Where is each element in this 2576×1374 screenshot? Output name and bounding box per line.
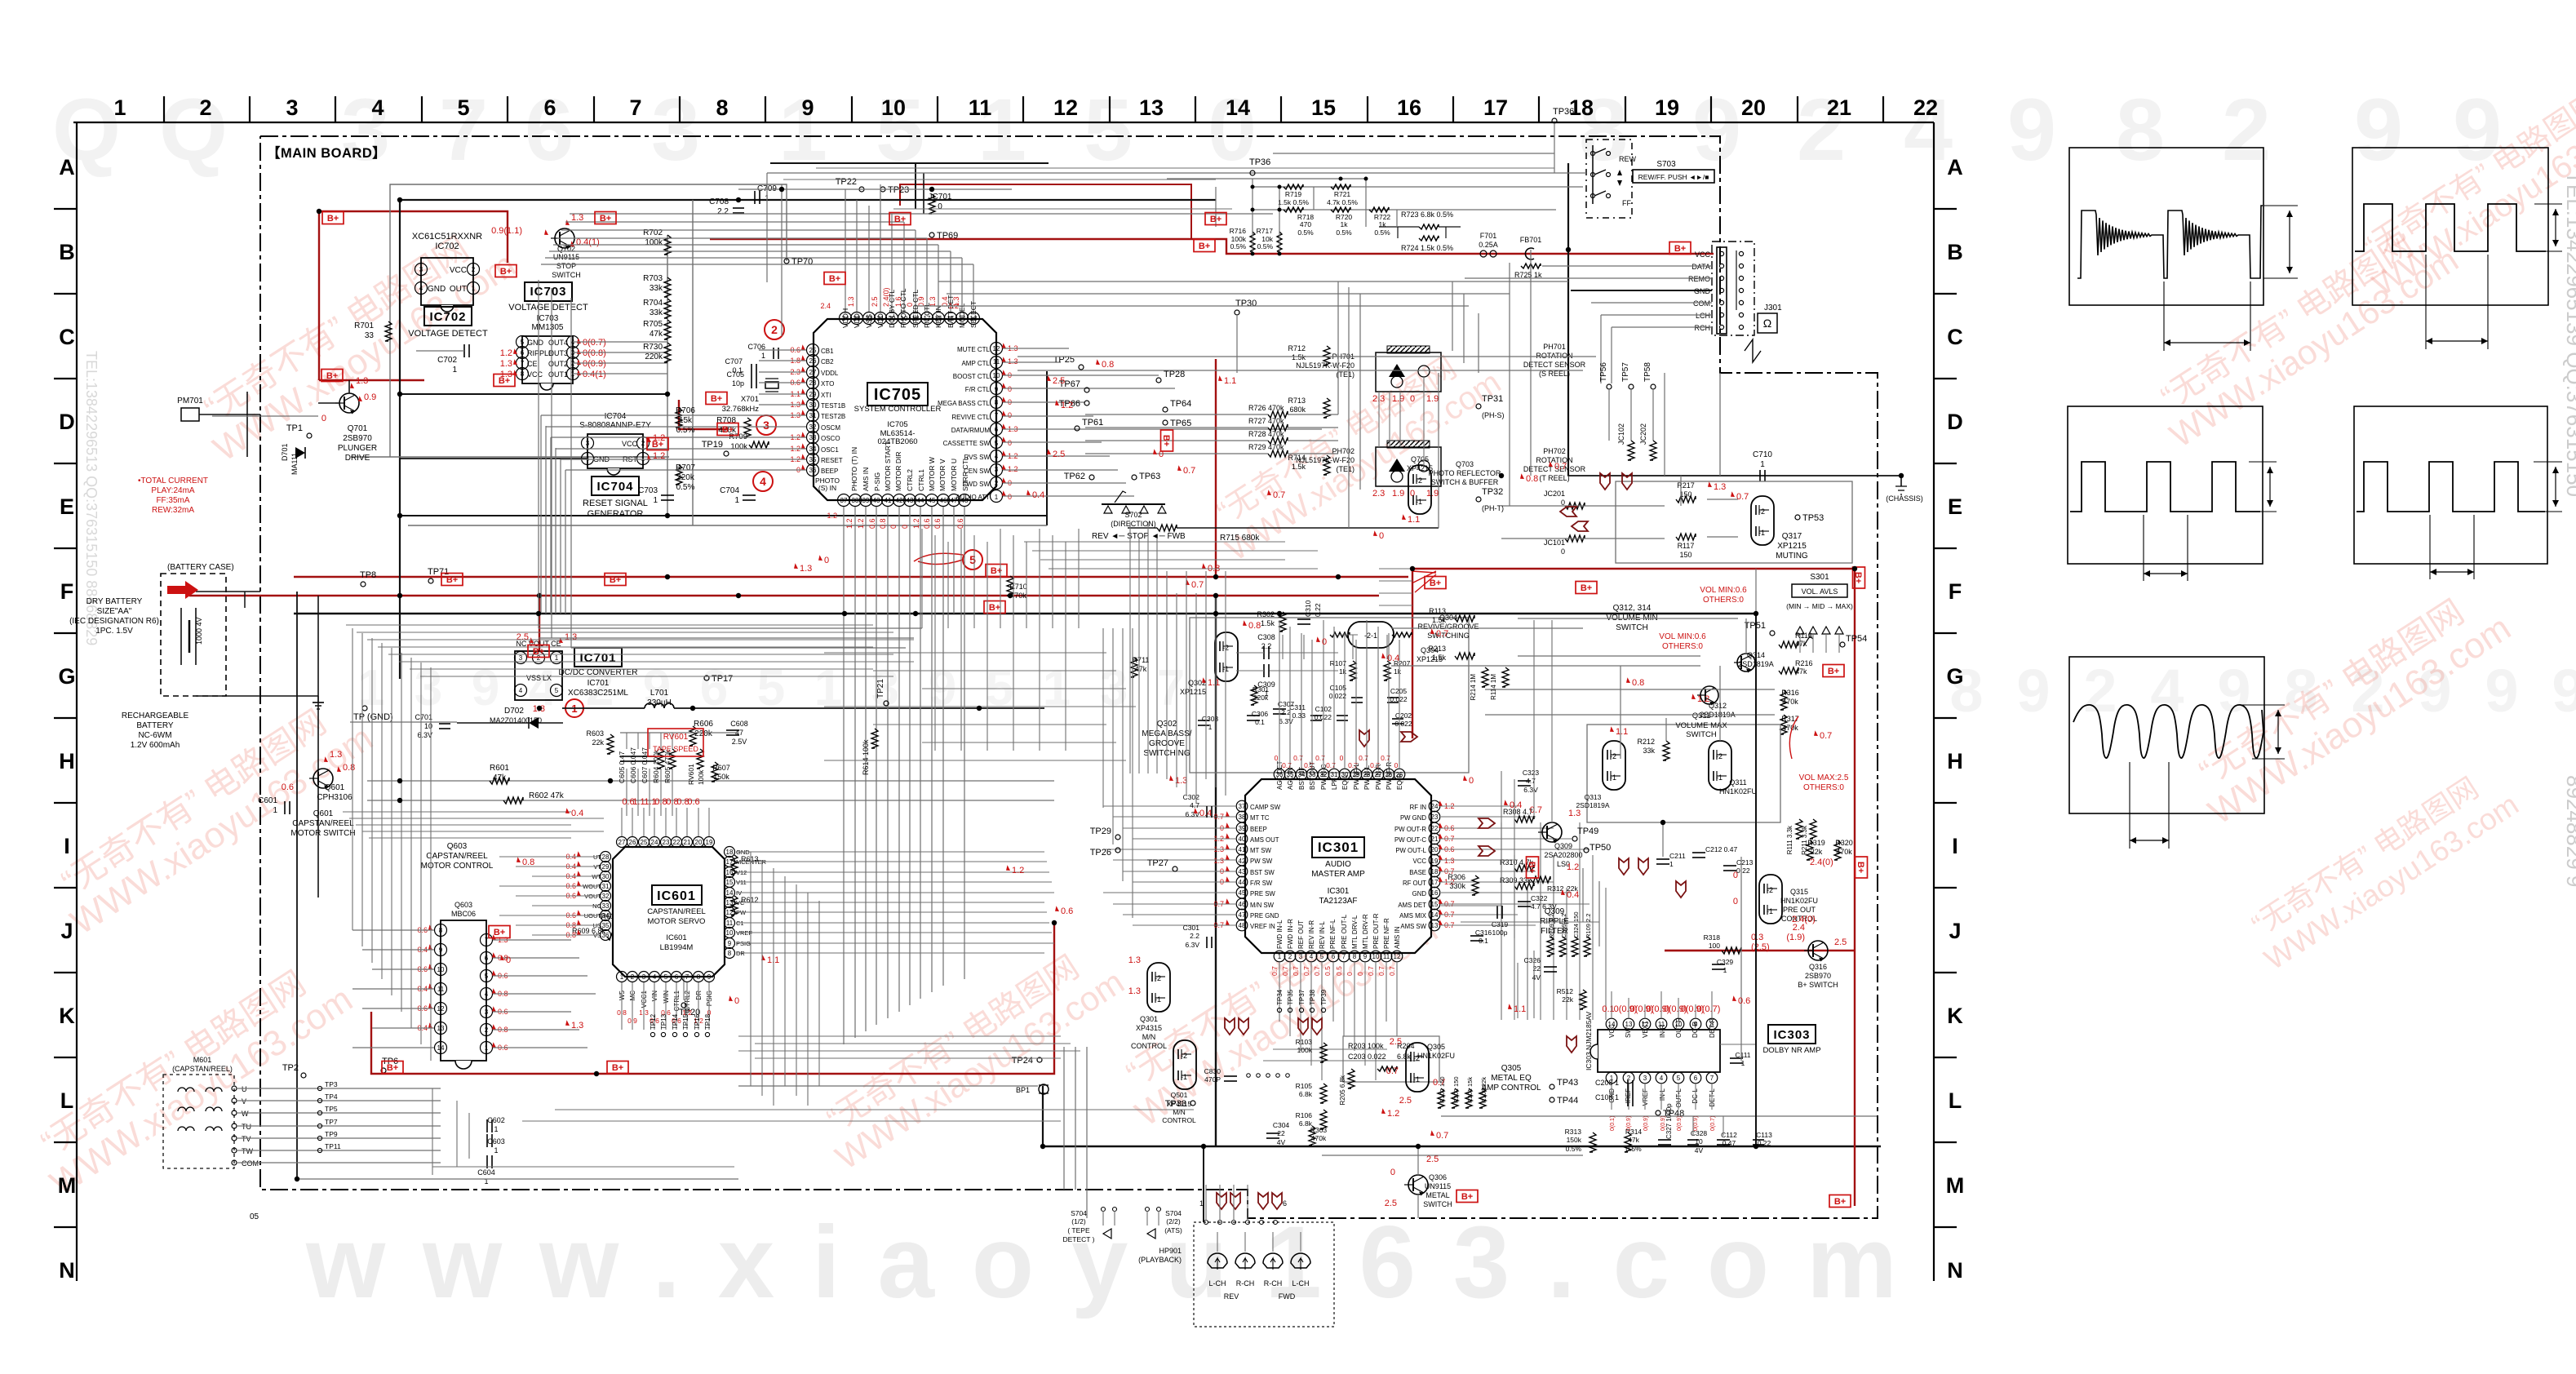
svg-text:KEY IN: KEY IN	[934, 305, 942, 328]
svg-text:C310: C310	[1304, 600, 1312, 617]
svg-text:12: 12	[1394, 953, 1401, 960]
svg-text:0.8: 0.8	[879, 518, 887, 529]
svg-text:1: 1	[485, 1044, 489, 1052]
IC701 pin 1	[551, 652, 563, 664]
wire IC705 bottom bundle	[843, 507, 845, 1044]
IC705 pin 38	[849, 494, 862, 507]
svg-text:VOL MIN:0.6: VOL MIN:0.6	[1700, 586, 1747, 595]
svg-text:I: I	[64, 834, 70, 858]
wire IC705 left bundle verticals	[540, 415, 542, 614]
svg-text:TEST1B: TEST1B	[821, 402, 845, 410]
svg-text:9: 9	[995, 386, 999, 393]
svg-text:48: 48	[1239, 922, 1246, 929]
svg-text:0.5%: 0.5%	[1257, 242, 1274, 250]
TP24 test point	[1037, 1057, 1042, 1062]
svg-text:Q601: Q601	[325, 783, 345, 792]
wire mesh right risers above IC301	[1166, 571, 1168, 779]
svg-text:150k: 150k	[1567, 1136, 1582, 1144]
svg-text:EQ-R: EQ-R	[1396, 773, 1403, 790]
svg-text:A: A	[1947, 155, 1963, 180]
svg-text:C602: C602	[487, 1116, 505, 1124]
svg-text:47k: 47k	[493, 773, 507, 782]
Q603 pin 9	[435, 944, 447, 956]
svg-text:4: 4	[2150, 657, 2184, 725]
svg-text:R216: R216	[1795, 659, 1813, 667]
R310 resistor	[1514, 865, 1534, 871]
svg-text:B+: B+	[1828, 667, 1839, 676]
svg-text:R212: R212	[1637, 738, 1655, 746]
C112 C113 capacitors	[1717, 1139, 1730, 1141]
wire IC301 left fanout	[1103, 805, 1236, 807]
C705 capacitor	[751, 377, 752, 388]
svg-text:IC705: IC705	[874, 386, 921, 404]
svg-text:12: 12	[1053, 95, 1078, 120]
IC303 pin 9	[1690, 1018, 1701, 1030]
svg-text:0.7: 0.7	[1820, 731, 1832, 741]
svg-text:9: 9	[801, 95, 814, 120]
IC301 pin 12	[1391, 951, 1403, 962]
svg-text:-1: -1	[1416, 498, 1422, 506]
svg-text:2: 2	[631, 973, 635, 981]
svg-text:B+: B+	[1430, 578, 1441, 588]
IC301 chip body	[1245, 779, 1431, 953]
svg-text:150: 150	[1679, 490, 1691, 499]
svg-text:C329: C329	[1717, 958, 1734, 966]
svg-text:R109 2.2: R109 2.2	[1585, 914, 1592, 938]
svg-text:K: K	[59, 1004, 75, 1028]
C710 capacitor	[1759, 470, 1761, 481]
IC705 chip body	[814, 319, 996, 500]
svg-text:1: 1	[273, 806, 277, 815]
svg-text:XC6383C251ML: XC6383C251ML	[568, 689, 628, 698]
svg-text:TEST2B: TEST2B	[821, 413, 845, 420]
svg-text:B: B	[1947, 240, 1963, 264]
svg-text:15: 15	[726, 879, 734, 886]
resistor R605	[669, 749, 676, 769]
svg-text:TP13: TP13	[660, 1013, 667, 1030]
IC705 pin 30	[807, 399, 819, 411]
svg-text:Q312: Q312	[1709, 702, 1727, 710]
svg-text:TP37: TP37	[1298, 989, 1306, 1005]
svg-text:B+: B+	[829, 274, 840, 284]
svg-text:0(0.9): 0(0.9)	[1643, 1116, 1649, 1131]
JC701 resistor	[929, 194, 935, 214]
IC601 pin 27	[617, 837, 627, 848]
svg-text:R715 680k: R715 680k	[1220, 534, 1260, 543]
R117 resistor	[1676, 534, 1696, 540]
svg-text:Q311: Q311	[1692, 711, 1711, 720]
svg-text:C302: C302	[1183, 793, 1200, 801]
R113 resistor	[1455, 615, 1474, 622]
svg-text:12: 12	[993, 345, 1000, 352]
svg-text:470P: 470P	[1204, 1075, 1221, 1084]
svg-text:1.1: 1.1	[632, 797, 645, 807]
svg-text:8: 8	[2116, 80, 2165, 179]
svg-text:1.9: 1.9	[1426, 394, 1439, 404]
svg-text:DC-R: DC-R	[1691, 1022, 1699, 1038]
J301 pin LCH	[1719, 312, 1723, 317]
IC705 pin 36	[807, 464, 819, 476]
svg-text:9: 9	[2016, 657, 2050, 725]
wire black bus row F	[294, 613, 1756, 615]
svg-text:35: 35	[602, 922, 610, 929]
svg-text:22: 22	[673, 839, 681, 846]
R716 resistor	[1250, 232, 1255, 251]
wire top horizontal gray 232	[738, 188, 1012, 190]
svg-text:HN1K02FU: HN1K02FU	[1780, 897, 1818, 905]
svg-text:PRE OUT: PRE OUT	[1783, 906, 1816, 914]
svg-text:0.7: 0.7	[1313, 966, 1321, 976]
IC705 pin 27	[807, 366, 819, 379]
svg-text:C605 0.47: C605 0.47	[618, 751, 626, 783]
svg-text:R701: R701	[354, 321, 374, 330]
svg-text:R117: R117	[1678, 542, 1695, 550]
R718 resistor	[1284, 207, 1303, 212]
chevron IC303 left	[1567, 1036, 1576, 1053]
svg-text:-1: -1	[1155, 995, 1161, 1004]
svg-text:27: 27	[809, 369, 817, 376]
svg-text:PW SW: PW SW	[1250, 858, 1273, 865]
svg-text:2.5V: 2.5V	[732, 738, 747, 746]
wire black right riser 1283	[1046, 371, 1048, 525]
svg-text:2: 2	[1288, 953, 1292, 960]
svg-text:0(0.7): 0(0.7)	[583, 338, 606, 348]
IC705 pin 19	[898, 312, 911, 325]
svg-text:41: 41	[885, 497, 892, 504]
wire HP901 feeds	[1217, 1232, 1218, 1252]
svg-text:1: 1	[761, 352, 765, 360]
M601 coils	[178, 1088, 194, 1092]
wire riser 849	[692, 200, 694, 525]
svg-text:1.3: 1.3	[571, 213, 583, 223]
svg-text:PW OUT-L: PW OUT-L	[1395, 847, 1426, 854]
wire left vertical 364	[296, 592, 298, 1179]
IC705 pin 24	[840, 312, 852, 325]
TP54 test point	[1840, 642, 1845, 647]
IC601 pin 10	[725, 928, 735, 938]
svg-text:11: 11	[1383, 953, 1390, 960]
B+ label	[321, 370, 343, 382]
svg-text:TP18: TP18	[704, 1013, 712, 1030]
C702 capacitor	[463, 344, 465, 357]
IC301 pin 20	[1429, 844, 1440, 855]
svg-text:RECHARGEABLE: RECHARGEABLE	[122, 711, 189, 720]
R712 resistor	[1323, 346, 1330, 366]
svg-text:0.7: 0.7	[1281, 966, 1289, 976]
R601 resistor	[490, 778, 509, 784]
IC601 chip body	[613, 847, 725, 977]
PH702 sensor block	[1376, 447, 1441, 486]
svg-text:1: 1	[113, 95, 126, 120]
svg-text:05: 05	[250, 1212, 259, 1221]
svg-text:TP17: TP17	[712, 674, 733, 684]
C301 capacitor	[1206, 937, 1208, 948]
svg-text:5: 5	[485, 973, 489, 980]
wire IC301 bottom stubs	[1279, 962, 1280, 1022]
C327 capacitor	[1658, 1139, 1671, 1141]
wire mesh bottom long rows	[555, 1109, 1194, 1110]
svg-text:TP27: TP27	[1147, 858, 1168, 868]
svg-text:36: 36	[602, 932, 610, 939]
wire IC704 rst	[400, 458, 587, 459]
svg-text:43: 43	[907, 497, 914, 504]
svg-text:AMS IN: AMS IN	[862, 468, 870, 491]
svg-text:39: 39	[862, 497, 870, 504]
svg-text:4: 4	[760, 475, 766, 488]
svg-text:40: 40	[1239, 835, 1246, 843]
svg-text:Q316: Q316	[1809, 963, 1827, 971]
svg-text:0.7: 0.7	[1386, 1066, 1399, 1076]
svg-text:R301: R301	[1253, 685, 1270, 694]
wire IC705 right fanout	[1003, 348, 1069, 349]
mega bass block outline	[1190, 618, 1469, 773]
svg-text:BP1: BP1	[1016, 1086, 1030, 1094]
svg-text:1.2: 1.2	[500, 348, 512, 358]
C202 capacitor	[1392, 718, 1403, 720]
svg-text:TP36: TP36	[1553, 107, 1574, 117]
svg-text:6: 6	[521, 349, 525, 357]
IC601 pin 6	[672, 972, 682, 982]
IC705 pin 15	[945, 312, 957, 325]
svg-text:2.4: 2.4	[1793, 923, 1805, 933]
C326 capacitor	[1544, 966, 1557, 968]
svg-text:TA2123AF: TA2123AF	[1319, 897, 1357, 906]
wire trunk from border corner	[1719, 373, 1721, 476]
svg-text:SURR CTL: SURR CTL	[961, 456, 969, 491]
IC301 pin 2	[1284, 951, 1296, 962]
waveform 4 level dimension arrow	[2534, 461, 2562, 463]
svg-text:680k: 680k	[1289, 406, 1306, 414]
B+ label	[1194, 240, 1215, 252]
svg-text:MOTOR CONTROL: MOTOR CONTROL	[421, 862, 494, 871]
M601 motor dashed box	[163, 1075, 234, 1168]
B+ label	[595, 212, 616, 224]
svg-text:C211: C211	[1669, 852, 1686, 860]
svg-text:TP53: TP53	[1802, 513, 1824, 523]
C701 capacitor	[439, 723, 450, 725]
IC703 pin 6	[517, 347, 529, 359]
svg-text:2: 2	[472, 266, 476, 273]
svg-text:0(0.9): 0(0.9)	[583, 359, 606, 369]
IC303 pin 1	[1606, 1072, 1617, 1084]
svg-text:RV601: RV601	[687, 764, 695, 785]
wire J301 feeds	[1542, 265, 1712, 267]
svg-text:AMS IN: AMS IN	[1394, 926, 1401, 949]
waveform 5 period dimension arrow	[2129, 762, 2130, 849]
B+ label	[1205, 213, 1226, 225]
svg-text:11: 11	[969, 95, 992, 120]
Q603 chip body	[441, 920, 486, 1061]
svg-text:1: 1	[494, 1125, 498, 1133]
IC705 pin 18	[910, 312, 922, 325]
svg-text:48: 48	[961, 497, 969, 504]
waveform 2 period dimension arrow	[2425, 255, 2427, 349]
svg-text:PW OUT-C: PW OUT-C	[1394, 836, 1426, 844]
svg-text:NC-6WM: NC-6WM	[138, 731, 171, 740]
IC705 pin 41	[882, 494, 894, 507]
svg-text:0: 0	[1008, 439, 1012, 447]
IC705 pin 7	[991, 410, 1003, 423]
svg-text:G: G	[1946, 664, 1963, 689]
wire mega bass rows	[1236, 652, 1264, 654]
chevrons below IC301	[1225, 1018, 1235, 1035]
svg-text:6.3V: 6.3V	[1523, 786, 1538, 794]
red circled 2	[765, 320, 784, 339]
svg-text:SIZE"AA": SIZE"AA"	[97, 607, 132, 616]
IC705 pin 39	[860, 494, 872, 507]
IC301 pin 38	[1236, 811, 1248, 822]
muting block outline	[1616, 481, 1852, 563]
svg-text:B+: B+	[494, 928, 505, 937]
svg-text:TP26: TP26	[1090, 848, 1111, 858]
svg-text:RV601: RV601	[663, 733, 689, 742]
svg-text:VDDH: VDDH	[841, 308, 849, 328]
svg-text:TP29: TP29	[1090, 827, 1111, 836]
svg-text:0.6: 0.6	[1061, 906, 1073, 916]
svg-text:46: 46	[1239, 901, 1246, 908]
svg-text:B+: B+	[610, 575, 621, 585]
watermark pink diagonal 10	[809, 933, 1131, 1177]
svg-text:B+: B+	[1853, 572, 1863, 583]
svg-text:0.5%: 0.5%	[1336, 228, 1352, 237]
R301 resistor	[1251, 685, 1257, 705]
svg-text:M: M	[58, 1173, 77, 1198]
IC301 pin 6	[1328, 951, 1339, 962]
svg-text:VCC: VCC	[450, 266, 467, 275]
svg-text:0.7: 0.7	[1377, 966, 1386, 976]
wire battery minus	[196, 695, 318, 697]
svg-text:R113: R113	[1429, 607, 1446, 615]
svg-text:BST SW: BST SW	[1250, 869, 1275, 876]
svg-text:TP14: TP14	[672, 1013, 679, 1030]
R701 resistor	[385, 321, 392, 341]
IC601 pin 32	[601, 891, 611, 902]
svg-text:8: 8	[697, 973, 701, 981]
svg-text:1.9: 1.9	[1426, 489, 1439, 499]
svg-text:L: L	[1949, 1088, 1962, 1113]
Q603 pin 14	[435, 1042, 447, 1054]
TP36 test point	[1552, 118, 1557, 123]
svg-text:VCC: VCC	[1608, 1024, 1616, 1038]
svg-text:TP16: TP16	[694, 1013, 701, 1030]
svg-text:29: 29	[809, 391, 817, 398]
svg-text:MUTE CTL: MUTE CTL	[957, 346, 991, 353]
svg-text:1.6: 1.6	[894, 296, 902, 307]
IC704 pin 3	[582, 437, 594, 450]
TP53 test point	[1795, 515, 1800, 520]
svg-text:LX: LX	[543, 674, 552, 682]
wire ladder row B	[1253, 209, 1556, 211]
svg-text:8: 8	[728, 950, 732, 957]
wire volume rows	[1391, 627, 1583, 629]
TP70 test point	[784, 259, 789, 264]
B+ label	[382, 1062, 403, 1074]
svg-text:18: 18	[1431, 868, 1439, 875]
svg-text:16: 16	[726, 869, 734, 876]
svg-text:1.3: 1.3	[1128, 986, 1141, 996]
svg-text:43: 43	[1239, 868, 1246, 875]
svg-text:JC701: JC701	[929, 193, 952, 202]
svg-text:0: 0	[1733, 897, 1738, 906]
wire IC601 right fanout	[736, 851, 1044, 853]
C310 capacitor	[1297, 618, 1310, 620]
chevron pre-out area	[1619, 858, 1629, 875]
IC705 pin 48	[959, 494, 971, 507]
svg-text:42: 42	[1239, 858, 1246, 865]
red feed arrow	[167, 581, 198, 599]
svg-text:B+: B+	[1161, 435, 1171, 446]
wire audio bottom rows	[1263, 1060, 1420, 1062]
svg-text:DET-R: DET-R	[1709, 1018, 1716, 1038]
svg-text:17: 17	[1431, 879, 1439, 886]
R614 resistor	[871, 729, 878, 748]
svg-text:VCC: VCC	[1413, 858, 1427, 865]
svg-text:(DIRECTION): (DIRECTION)	[1111, 520, 1156, 528]
svg-text:5: 5	[969, 553, 976, 566]
svg-text:40: 40	[873, 497, 880, 504]
IC705 pin 13	[968, 312, 980, 325]
svg-text:22: 22	[1913, 95, 1938, 120]
svg-text:0.8: 0.8	[1102, 360, 1114, 370]
R116 resistor	[1779, 641, 1798, 648]
svg-text:FB701: FB701	[1520, 236, 1542, 244]
IC703 input wires	[573, 341, 667, 343]
C311 capacitor	[1310, 715, 1322, 716]
svg-text:TP21: TP21	[876, 679, 885, 698]
svg-text:2SB970: 2SB970	[1805, 972, 1831, 980]
svg-text:0: 0	[1275, 754, 1279, 762]
svg-text:5: 5	[457, 95, 469, 120]
frame border left line	[76, 122, 78, 1281]
svg-text:CPH3106: CPH3106	[317, 793, 352, 802]
svg-text:-2: -2	[1758, 507, 1765, 516]
svg-text:R719: R719	[1285, 190, 1302, 198]
svg-text:M/N SW: M/N SW	[1250, 902, 1275, 909]
svg-text:4: 4	[519, 687, 523, 694]
svg-text:0.5%: 0.5%	[1297, 228, 1314, 237]
wire top horizontal gray 256	[893, 208, 1232, 210]
svg-text:1.3: 1.3	[500, 359, 512, 369]
svg-text:5: 5	[1320, 953, 1324, 960]
C706 capacitor	[773, 348, 774, 359]
svg-text:100p: 100p	[1492, 929, 1508, 937]
wire right long rows	[1018, 356, 1596, 357]
IC301 pin 39	[1236, 822, 1248, 834]
svg-text:20: 20	[1741, 95, 1766, 120]
svg-text:6.8k: 6.8k	[1397, 1053, 1412, 1061]
svg-text:1.5k: 1.5k	[1261, 619, 1275, 627]
svg-text:1: 1	[1760, 460, 1765, 469]
IC301 pin 21	[1429, 833, 1440, 844]
svg-text:SELECT: SELECT	[969, 301, 978, 328]
svg-text:33k: 33k	[650, 284, 663, 293]
svg-text:JC102: JC102	[1617, 423, 1625, 445]
Q603 pin 13	[435, 1022, 447, 1035]
svg-text:AUDIO: AUDIO	[1325, 860, 1351, 869]
R316 resistor	[1780, 690, 1787, 710]
svg-text:0.3: 0.3	[1751, 933, 1763, 942]
red circled 3	[756, 415, 776, 435]
svg-text:VCC: VCC	[1695, 250, 1711, 259]
svg-text:R721: R721	[1334, 190, 1351, 198]
IC601 pin 23	[661, 837, 672, 848]
svg-text:6: 6	[1283, 1199, 1287, 1208]
IC601 pin 33	[601, 901, 611, 911]
svg-text:E: E	[1948, 494, 1962, 519]
svg-text:R614 100k: R614 100k	[862, 739, 870, 775]
svg-text:B+: B+	[499, 376, 510, 386]
svg-text:470k: 470k	[1782, 698, 1798, 706]
